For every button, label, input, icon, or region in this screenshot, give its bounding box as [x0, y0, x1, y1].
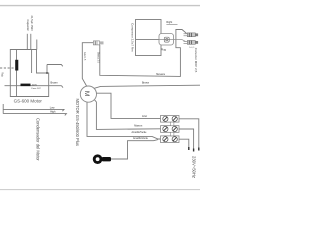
svg-text:Conector MKP 2,5: Conector MKP 2,5 — [194, 48, 198, 73]
svg-text:21,5µF 450V: 21,5µF 450V — [30, 16, 34, 32]
svg-text:Low: Low — [50, 106, 55, 109]
svg-text:Amarillo/Verde: Amarillo/Verde — [132, 131, 148, 134]
svg-text:GS-600 Motor: GS-600 Motor — [14, 99, 43, 104]
svg-text:Capacitor: Capacitor — [26, 20, 30, 32]
svg-text:High: High — [50, 111, 56, 114]
svg-text:Amarillo/Verde: Amarillo/Verde — [133, 137, 149, 140]
svg-text:Marron: Marron — [134, 124, 143, 127]
svg-text:Azur: Azur — [142, 115, 147, 118]
svg-text:Compresor 2,5x7 Nm: Compresor 2,5x7 Nm — [130, 23, 134, 52]
svg-text:Fuse 10T: Fuse 10T — [32, 88, 42, 90]
svg-text:M: M — [83, 91, 90, 97]
svg-text:Right: Right — [166, 21, 172, 24]
svg-text:Blanco 2,5: Blanco 2,5 — [97, 52, 99, 64]
svg-text:Azul 1,5: Azul 1,5 — [83, 52, 86, 61]
svg-text:Rojo: Rojo — [1, 72, 3, 77]
svg-text:Nevera: Nevera — [156, 72, 165, 76]
svg-text:Plug: Plug — [161, 49, 167, 52]
svg-text:400V: 400V — [32, 85, 38, 87]
svg-text:Brown: Brown — [51, 81, 59, 84]
svg-text:MOTOR GS-450/600 Plus: MOTOR GS-450/600 Plus — [75, 99, 80, 146]
svg-text:Brown: Brown — [142, 81, 150, 84]
svg-text:230V~50Hz: 230V~50Hz — [191, 156, 196, 178]
svg-text:Condensador del Motor: Condensador del Motor — [36, 118, 41, 161]
